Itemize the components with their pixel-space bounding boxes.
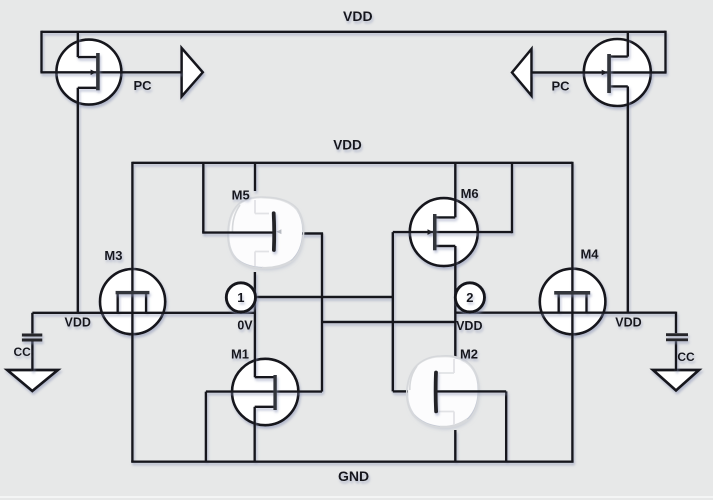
svg-text:M4: M4 bbox=[580, 247, 599, 262]
wire: M6 gate line through body bbox=[393, 231, 512, 233]
wire: PC right gate line from output arrow bbox=[532, 71, 667, 73]
transistor PC left: channel arms bbox=[78, 57, 97, 88]
transistor M1: channel arms bbox=[255, 377, 274, 407]
transistor PC right: gate bar bbox=[607, 54, 611, 93]
svg-text:1: 1 bbox=[237, 290, 244, 305]
transistor M4: body circle bbox=[540, 269, 606, 335]
wire: PC left source down to VDD node row bbox=[77, 88, 79, 313]
transistor M5: drain stub from inner VDD rail bbox=[254, 163, 256, 191]
transistor M5: gate lead drawn over blob bbox=[202, 231, 272, 233]
wire: right CC cap drop from VDD row bbox=[675, 312, 677, 334]
transistor PC right: body circle bbox=[584, 39, 651, 106]
node 2 bubble bbox=[455, 283, 484, 312]
transistor PC left: body circle bbox=[56, 40, 121, 105]
wire: PC left gate line to output arrow bbox=[40, 71, 181, 73]
transistor M6: body circle bbox=[410, 198, 478, 266]
wire: right feedback drop from top rail to PC gate bbox=[664, 31, 666, 73]
transistor M2: faint hidden symbol traces bbox=[439, 359, 455, 425]
transistor PC right: gate arrowhead bbox=[602, 70, 608, 76]
wire: M5 source drop from inner VDD rail bbox=[202, 163, 204, 233]
transistor M5: gate bar (hand stroke) bbox=[272, 213, 276, 250]
wire: M2 source stub down to GND rail bbox=[454, 430, 456, 462]
transistor M2: sketchy blob outline bbox=[407, 356, 479, 428]
transistor M5: white-out blob bbox=[229, 198, 302, 267]
wire: M4 source-drain row from node-2 vertical to CC cap bbox=[455, 312, 676, 314]
wire: cross-couple horizontal H2 from V2 to node-2 vertical bbox=[322, 321, 455, 323]
ground symbol left bbox=[7, 370, 58, 391]
transistor M2: gate lead drawn over blob bbox=[438, 390, 507, 392]
wire: node-1 horizontal H1 to V1 bbox=[256, 296, 393, 298]
svg-text:CC: CC bbox=[14, 345, 32, 359]
transistor M1: gate bar bbox=[273, 375, 276, 410]
svg-text:VDD: VDD bbox=[615, 316, 641, 330]
transistor M3: channel contact arms bbox=[118, 294, 146, 313]
wire: inner VDD rail bbox=[132, 162, 572, 164]
wire: top VDD rail bbox=[42, 31, 666, 33]
ground symbol right bbox=[653, 370, 699, 391]
transistor M5: faint arrowhead remnant bbox=[276, 229, 281, 234]
svg-text:M6: M6 bbox=[461, 186, 479, 201]
wire: M1 gate left drop to GND rail bbox=[205, 392, 207, 462]
capacitor CC left: plates bbox=[22, 335, 42, 340]
svg-text:PC: PC bbox=[551, 79, 570, 94]
svg-text:0V: 0V bbox=[237, 319, 253, 333]
transistor M6: channel arms bbox=[436, 217, 455, 246]
wire: M6 right segment up to inner VDD rail bbox=[511, 163, 513, 233]
transistor M6: gate arrowhead bbox=[428, 229, 434, 235]
svg-text:M3: M3 bbox=[104, 248, 122, 263]
svg-text:VDD: VDD bbox=[333, 138, 362, 153]
transistor PC left: gate bar bbox=[96, 53, 100, 90]
svg-text:2: 2 bbox=[466, 290, 473, 305]
wire: cross-couple vertical V2 from M5 right to M1 gate bbox=[321, 234, 323, 392]
svg-text:VDD: VDD bbox=[64, 316, 90, 330]
output buffer arrow left bbox=[182, 48, 203, 97]
svg-text:PC: PC bbox=[133, 78, 152, 93]
capacitor CC right: plates bbox=[666, 335, 688, 340]
transistor PC right: drain stub from top rail bbox=[627, 32, 629, 57]
transistor M5: sketchy blob outline bbox=[228, 197, 304, 269]
transistor PC left: gate arrowhead bbox=[91, 70, 97, 76]
transistor M4: gate bar bbox=[554, 291, 590, 295]
wire: left frame vertical through M3 bbox=[131, 162, 133, 462]
wire: node-2 vertical from M6 down to M2 drain bbox=[454, 246, 456, 357]
wire: node-1 vertical from M5 to M1 drain bbox=[254, 272, 256, 377]
svg-text:M5: M5 bbox=[232, 188, 250, 203]
wire: right frame vertical through M4 bbox=[571, 162, 573, 462]
svg-text:GND: GND bbox=[338, 468, 369, 484]
transistor M2: gate bar (hand stroke) bbox=[434, 373, 438, 412]
transistor M1: body circle bbox=[232, 359, 298, 425]
wire: cross-couple vertical V1 from M6 gate to M2 gate bbox=[392, 232, 394, 391]
bottom slide edge highlight bbox=[0, 496, 713, 498]
wire: M1 source stub down to GND rail bbox=[253, 407, 255, 462]
wire: right CC cap to ground stub bbox=[675, 341, 677, 371]
svg-text:CC: CC bbox=[677, 350, 695, 364]
svg-text:M1: M1 bbox=[231, 347, 249, 362]
wire: M5 right segment to V2 bbox=[301, 232, 323, 234]
transistor M6: drain stub from inner VDD rail bbox=[454, 163, 456, 218]
wire: M3 source-drain row from CC cap to node-1 vertical bbox=[32, 312, 255, 314]
transistor M5: faint hidden symbol traces bbox=[233, 200, 270, 266]
transistor M3: body circle bbox=[100, 269, 165, 334]
output buffer arrow right bbox=[512, 49, 532, 96]
transistor M4: channel contact arms bbox=[559, 294, 587, 313]
svg-text:M2: M2 bbox=[460, 347, 478, 362]
wire: M2 gate lead entering blob from V1 bbox=[393, 390, 408, 392]
wire: left CC cap to ground stub bbox=[31, 341, 33, 371]
wire: left CC cap drop from VDD row bbox=[31, 313, 33, 334]
wire: M2 gate right segment to GND drop bbox=[505, 391, 507, 461]
transistor PC left: drain stub from top rail bbox=[77, 32, 79, 57]
svg-text:VDD: VDD bbox=[456, 319, 482, 333]
wire: M1 gate line through body bbox=[206, 390, 322, 392]
transistor M6: gate bar bbox=[433, 214, 437, 250]
transistor M3: gate bar bbox=[116, 291, 150, 294]
transistor PC right: channel arms bbox=[610, 57, 628, 87]
svg-text:VDD: VDD bbox=[343, 8, 373, 24]
node 1 bubble bbox=[226, 283, 255, 312]
wire: left feedback drop from top rail to PC gate bbox=[40, 31, 42, 73]
transistor M2: white-out blob bbox=[408, 357, 477, 426]
wire: GND rail bbox=[131, 461, 573, 463]
wire: PC right source down to VDD node row bbox=[627, 86, 629, 312]
